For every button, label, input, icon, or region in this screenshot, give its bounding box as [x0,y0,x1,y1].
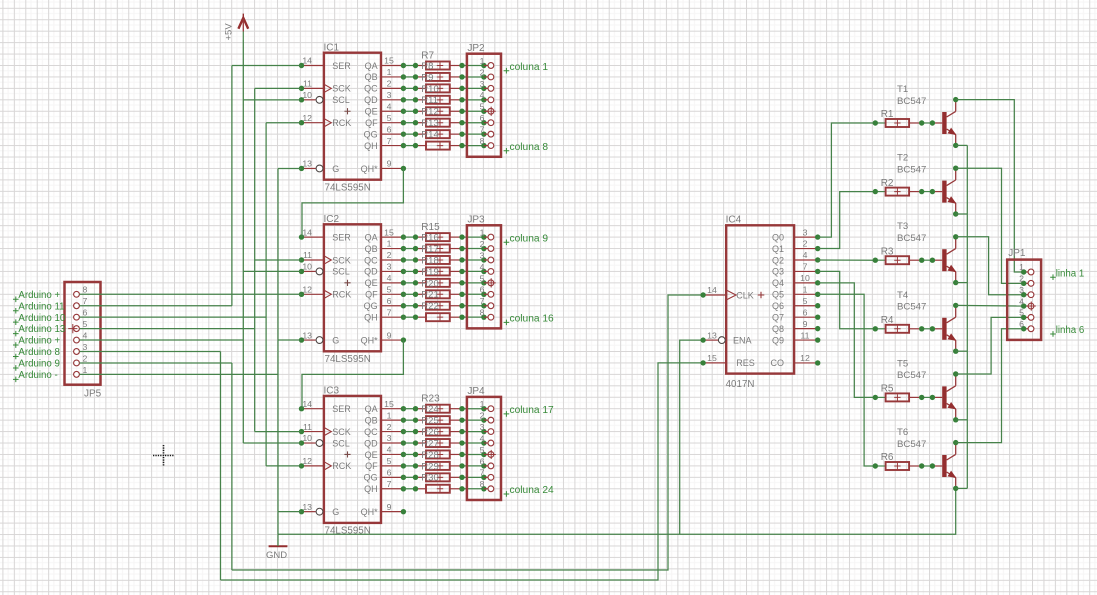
svg-text:QE: QE [365,107,378,117]
pin 2 QC of IC1 [364,79,406,94]
wire IC3 RCK [266,465,301,467]
svg-text:3: 3 [387,262,392,272]
resistor R28 [416,461,463,472]
wire [462,110,484,112]
svg-text:15: 15 [384,56,394,66]
pin 15 QA of IC3 [365,399,407,414]
svg-text:R30: R30 [421,473,438,484]
pin 11 SCK of IC3 [299,422,351,437]
svg-text:BC547: BC547 [897,233,926,244]
wire Arduino 10 row [79,316,266,318]
pin 5 QF of IC2 [365,285,406,300]
svg-text:10: 10 [302,262,312,272]
crosshair mark [153,445,174,466]
svg-text:13: 13 [302,330,312,340]
wire GND rail [278,488,956,534]
junction [413,63,418,68]
resistor R12 [416,118,463,129]
svg-text:4: 4 [480,433,485,443]
junction [413,143,418,148]
pin 4 QE of IC3 [365,445,407,460]
svg-text:10: 10 [302,90,312,100]
resistor R3 [875,246,921,264]
pin 4 of JP1 [1019,296,1036,310]
pin 7 of JP3 [480,296,494,308]
svg-text:6: 6 [480,113,485,123]
svg-text:SCL: SCL [332,438,350,448]
svg-text:T2: T2 [897,153,908,164]
wire [403,465,415,467]
pin 15 QA of IC2 [365,227,407,242]
wire T1 collector to JP1 pin 1 [956,100,1024,272]
junction [413,463,418,468]
wire IC2 G [278,339,302,341]
svg-text:ENA: ENA [733,335,752,345]
svg-text:Arduino +: Arduino + [18,290,60,301]
svg-text:R9: R9 [421,72,433,83]
pin 13 G of IC2 [299,330,340,345]
pin 4 QE of IC2 [365,273,407,288]
junction [413,406,418,411]
pin 3 of JP3 [480,250,494,263]
svg-text:12: 12 [302,456,312,466]
svg-text:4: 4 [83,330,88,340]
wire [462,122,484,124]
pin 10 SCL of IC1 [299,90,350,105]
pin 12 RCK of IC3 [299,456,352,471]
wire +5V rail vertical [242,40,244,443]
wire [462,453,484,455]
svg-text:coluna 9: coluna 9 [510,234,549,245]
resistor R27 [416,450,463,461]
svg-text:RES: RES [736,358,755,368]
pin 1 of JP3 [480,228,494,241]
+5V supply symbol [224,14,249,41]
svg-text:1: 1 [480,399,485,409]
svg-text:4: 4 [387,101,392,111]
resistor R23 [416,404,463,415]
pin 6 QG of IC1 [364,124,407,139]
svg-text:10: 10 [800,273,810,283]
svg-text:R27: R27 [421,438,438,449]
resistor R5 [875,384,921,402]
pin 7 QH of IC3 [364,479,406,494]
svg-text:9: 9 [387,502,392,512]
svg-text:4: 4 [387,445,392,455]
svg-text:G: G [332,335,339,345]
wire Arduino 13 row [79,328,254,330]
wire T3 emitter to bus [956,282,968,284]
transistor T5 BC547 [873,358,959,422]
pin 15 QA of IC1 [365,56,407,71]
svg-text:coluna 1: coluna 1 [510,62,549,73]
svg-text:JP3: JP3 [467,215,485,226]
pin 6 of JP1 [1019,319,1034,332]
wire [403,76,415,78]
wire Arduino 8 vertical [220,352,222,581]
resistor R16 [416,244,463,255]
svg-text:3: 3 [387,433,392,443]
svg-text:Q8: Q8 [772,324,784,334]
svg-text:10: 10 [302,433,312,443]
svg-text:IC4: IC4 [726,215,742,226]
svg-text:T6: T6 [897,427,908,438]
svg-text:5: 5 [480,445,485,455]
wire net SER vertical [231,66,233,306]
junction [413,417,418,422]
junction [413,475,418,480]
pin 4 of JP5 [74,330,88,343]
pin 4 of JP4 [480,433,494,445]
svg-text:R19: R19 [421,267,438,278]
svg-text:R12: R12 [421,107,438,118]
wire [403,87,415,89]
pin 11 SCK of IC2 [299,250,351,265]
svg-text:12: 12 [302,113,312,123]
svg-text:coluna 16: coluna 16 [510,314,555,325]
wire [403,122,415,124]
wire [403,236,415,238]
svg-text:QC: QC [364,427,378,437]
wire Arduino + row to +5V rail [79,339,243,341]
pin 11 Q9 of IC4 [772,330,820,345]
svg-text:13: 13 [302,502,312,512]
wire T6 collector to JP1 pin 6 [956,329,1024,443]
svg-text:12: 12 [800,353,810,363]
wire [403,259,415,261]
junction [413,257,418,262]
pin 3 QD of IC2 [364,262,406,277]
svg-text:R23: R23 [421,394,440,405]
svg-text:R17: R17 [421,244,438,255]
pin 1 Q5 of IC4 [772,285,820,300]
junction [413,97,418,102]
pin 14 SER of IC3 [299,399,352,414]
junction [413,269,418,274]
pin 6 Q7 of IC4 [772,307,820,322]
svg-text:7: 7 [480,125,485,135]
pin 3 of JP5 [74,342,88,355]
svg-text:6: 6 [480,285,485,295]
pin 8 of JP5 [74,285,88,297]
svg-text:R18: R18 [421,255,438,266]
net label coluna 17 [504,405,554,417]
pin 6 of JP3 [480,285,494,297]
svg-text:R24: R24 [421,404,438,415]
svg-text:4: 4 [1019,296,1024,306]
pin 1 of JP1 [1019,262,1034,275]
svg-text:QD: QD [364,267,378,277]
svg-text:SER: SER [332,232,351,242]
pin 12 CO of IC4 [771,353,821,368]
svg-text:Q9: Q9 [772,335,784,345]
wire [462,270,484,272]
svg-text:15: 15 [384,399,394,409]
pin 4 Q2 of IC4 [772,250,820,265]
junction [413,120,418,125]
wire Q4 to R5 [818,283,876,398]
svg-text:QA: QA [365,404,378,414]
svg-text:3: 3 [387,90,392,100]
resistor R24 [416,416,463,427]
junction [413,292,418,297]
svg-text:6: 6 [1019,319,1024,329]
svg-text:Q4: Q4 [772,278,784,288]
net label linha 1 [1050,268,1084,280]
svg-text:11: 11 [303,422,312,432]
pin 1 QB of IC1 [365,67,407,82]
svg-text:BC547: BC547 [897,439,926,450]
pin 5 of JP1 [1019,308,1034,321]
wire IC2 SCL [243,270,301,272]
resistor R19 [416,278,463,289]
svg-text:1: 1 [387,67,392,77]
pin 7 of JP2 [480,125,494,138]
svg-text:4: 4 [803,250,808,260]
pin 5 QF of IC3 [365,456,406,471]
wire [462,442,484,444]
svg-text:RCK: RCK [332,461,351,471]
pin 3 of JP4 [480,422,494,434]
svg-text:R11: R11 [421,95,438,106]
wire T4 collector to JP1 pin 4 [956,304,1024,307]
svg-text:QE: QE [365,450,378,460]
svg-text:RCK: RCK [332,290,351,300]
svg-text:6: 6 [387,296,392,306]
pin 5 of JP4 [480,445,496,459]
svg-text:3: 3 [803,227,808,237]
wire T4 emitter to bus [956,350,968,352]
svg-text:IC1: IC1 [324,42,340,53]
pin 3 QD of IC3 [364,433,406,448]
svg-text:QC: QC [364,84,378,94]
junction [413,314,418,319]
wire [403,110,415,112]
wire [462,293,484,295]
svg-text:R29: R29 [421,461,438,472]
svg-text:Q3: Q3 [772,267,784,277]
svg-text:Q5: Q5 [772,290,784,300]
svg-text:GND: GND [266,550,287,561]
svg-text:3: 3 [83,342,88,352]
pin 13 G of IC3 [299,502,340,517]
resistor R20 [416,290,463,301]
wire IC3 SCK stub [255,431,302,433]
svg-text:1: 1 [1019,262,1024,272]
svg-text:6: 6 [480,456,485,466]
svg-text:4017N: 4017N [726,379,755,390]
svg-text:13: 13 [707,330,717,340]
svg-text:SCL: SCL [332,267,350,277]
svg-text:2: 2 [480,67,485,77]
svg-text:BC547: BC547 [897,302,926,313]
svg-text:SCL: SCL [332,95,350,105]
resistor R15 [416,233,463,244]
wire net RCK vertical [265,123,267,466]
resistor R30 [416,485,463,493]
transistor T2 BC547 [873,153,959,217]
svg-text:3: 3 [480,422,485,432]
pin 14 SER of IC2 [299,227,352,242]
junction [413,74,418,79]
wire [403,453,415,455]
resistor R26 [416,438,463,449]
pin 12 RCK of IC2 [299,285,352,300]
wire IC1 SCL [243,99,301,101]
wire [462,408,484,410]
svg-text:CO: CO [771,358,785,368]
pin 2 of JP1 [1019,274,1034,287]
svg-text:Arduino 8: Arduino 8 [18,347,59,358]
pin 8 of JP3 [480,308,494,321]
svg-text:12: 12 [302,285,312,295]
svg-text:1: 1 [480,228,485,238]
junction [413,86,418,91]
pin 3 of JP2 [480,79,494,92]
svg-text:+5V: +5V [224,23,235,41]
svg-text:JP1: JP1 [1008,248,1026,259]
pin 6 QG of IC2 [364,296,407,311]
svg-text:15: 15 [707,353,717,363]
pin 8 of JP2 [480,136,494,149]
wire Arduino - row [79,373,278,375]
wire T5 emitter to bus [956,419,968,421]
svg-text:BC547: BC547 [897,164,926,175]
svg-text:8: 8 [480,479,485,489]
resistor R7 [416,61,463,72]
pin 11 SCK of IC1 [299,79,351,94]
svg-text:QH: QH [364,141,378,151]
resistor R1 [875,109,921,127]
svg-text:IC2: IC2 [324,214,340,225]
svg-text:RCK: RCK [332,118,351,128]
wire T5 collector to JP1 pin 5 [956,317,1024,374]
svg-text:Arduino 11: Arduino 11 [18,301,64,312]
svg-text:14: 14 [302,399,312,409]
net label Arduino + (JP5 pin 8) [13,290,60,302]
svg-text:1: 1 [387,410,392,420]
transistor T3 BC547 [873,221,959,285]
pin 2 of JP2 [480,67,494,80]
svg-text:6: 6 [387,124,392,134]
svg-text:QG: QG [364,129,378,139]
pin 2 of JP4 [480,411,494,424]
connector JP1 [1007,248,1041,340]
wire [403,65,415,67]
svg-text:R20: R20 [421,278,438,289]
wire IC3 G [278,511,302,513]
svg-text:1: 1 [83,365,88,375]
pin 3 Q0 of IC4 [772,227,820,242]
net label coluna 16 [504,314,554,326]
resistor R21 [416,301,463,312]
svg-text:7: 7 [387,479,392,489]
pin 1 QB of IC2 [365,239,407,254]
wire [403,305,415,307]
resistor R29 [416,473,463,484]
counter IC4 4017N box [726,215,795,390]
wire IC1 RCK [266,122,301,124]
svg-text:8: 8 [480,136,485,146]
pin 4 of JP2 [480,90,494,103]
svg-text:7: 7 [803,262,808,272]
pin 5 Q6 of IC4 [772,296,820,311]
wire [403,442,415,444]
svg-text:4: 4 [480,90,485,100]
pin 2 of JP5 [74,353,88,366]
pin 6 of JP2 [480,113,494,126]
net label coluna 9 [504,234,549,246]
wire [462,99,484,101]
pin 5 of JP5 [68,319,87,333]
wire Arduino 9 rail to IC4 CLK [232,295,703,570]
pin 7 QH of IC2 [364,307,406,322]
transistor T4 BC547 [873,290,959,354]
svg-text:2: 2 [83,353,88,363]
pin 13 G of IC1 [299,159,340,174]
svg-text:6: 6 [83,308,88,318]
pin 9 QH* of IC3 [361,502,407,517]
svg-text:Q2: Q2 [772,255,784,265]
pin 1 QB of IC3 [365,410,407,425]
wire [462,248,484,250]
svg-text:R15: R15 [421,222,440,233]
wire IC1 SER [232,65,302,67]
resistor R18 [416,267,463,278]
wire [403,282,415,284]
net label coluna 8 [504,142,549,154]
resistor R17 [416,255,463,266]
svg-text:5: 5 [83,319,88,329]
wire Arduino 11 row [79,305,232,307]
wire net G/GND vertical [277,168,279,546]
svg-text:11: 11 [800,330,809,340]
svg-text:7: 7 [387,136,392,146]
svg-text:T4: T4 [897,290,909,301]
svg-text:QF: QF [365,461,378,471]
pin 2 Q1 of IC4 [772,239,820,254]
svg-text:R25: R25 [421,416,438,427]
wire [403,476,415,478]
svg-text:Q7: Q7 [772,312,784,322]
wire Q2 to R3 [818,259,876,261]
svg-text:8: 8 [480,308,485,318]
wire T1 emitter to bus [956,144,968,146]
junction [413,131,418,136]
wire [462,305,484,307]
net label coluna 1 [504,62,549,74]
pin 9 QH* of IC2 [361,330,407,345]
svg-text:R16: R16 [421,233,438,244]
svg-text:9: 9 [387,159,392,169]
svg-text:SCK: SCK [332,427,351,437]
junction [413,429,418,434]
pin 2 QC of IC2 [364,250,406,265]
pin 2 of JP3 [480,239,494,252]
svg-text:14: 14 [302,227,312,237]
pin 1 of JP4 [480,399,494,412]
pin 5 QF of IC1 [365,113,406,128]
net label coluna 24 [504,485,554,497]
svg-text:QG: QG [364,301,378,311]
pin 5 of JP2 [480,102,496,116]
svg-text:3: 3 [480,79,485,89]
wire Q5 to R6 [818,294,876,466]
wire [403,248,415,250]
svg-text:SCK: SCK [332,255,351,265]
wire QH* chain IC1 to IC2 [302,168,403,237]
pin 9 QH* of IC1 [361,159,407,174]
